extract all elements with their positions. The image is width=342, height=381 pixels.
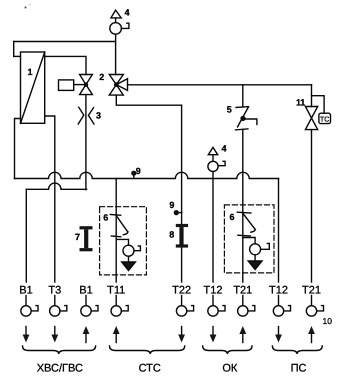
- arrow down B1: [23, 327, 30, 343]
- terminal B1 (second): [79, 284, 98, 316]
- svg-text:T21: T21: [233, 284, 252, 296]
- svg-text:СТС: СТС: [139, 363, 161, 375]
- svg-text:ОК: ОК: [222, 363, 238, 375]
- thermostat TC box: [319, 113, 331, 123]
- wire right main line y84.8: [128, 84, 312, 86]
- actuator box of valve 2: [59, 80, 85, 91]
- arrow up T21: [239, 326, 246, 343]
- filter 7: [80, 226, 93, 251]
- terminal T3: [48, 284, 66, 316]
- terminal B1: [19, 284, 38, 316]
- svg-text:ПС: ПС: [291, 363, 307, 375]
- wire exchanger right bottom port / T3 riser: [45, 116, 55, 282]
- wire T11 riser: [115, 179, 117, 283]
- sensor 9 (on T22 riser): [174, 211, 181, 215]
- pump unit 6 (OK) dashed box: [224, 205, 274, 273]
- scan speck: [25, 7, 27, 9]
- wire line1 return bus: [15, 172, 279, 178]
- svg-text:5: 5: [227, 104, 232, 114]
- svg-text:4: 4: [125, 8, 130, 18]
- svg-text:6: 6: [230, 212, 235, 222]
- wire B1 left drop: [25, 189, 27, 282]
- arrow down T22: [178, 327, 185, 343]
- svg-text:7: 7: [75, 232, 80, 242]
- wire T21 drop (PS): [311, 130, 313, 282]
- wire left outer vertical upper: [13, 42, 15, 57]
- terminal T22: [172, 284, 193, 316]
- svg-text:1: 1: [28, 67, 33, 77]
- arrow up T11: [113, 326, 120, 343]
- arrow down T3: [51, 327, 58, 343]
- arrow down T12: [210, 327, 217, 343]
- air vent 4 (on line1): [208, 147, 225, 178]
- terminal T11: [107, 284, 128, 316]
- wire riser valve 11: [311, 85, 313, 107]
- svg-text:6: 6: [103, 213, 108, 223]
- svg-text:9: 9: [136, 166, 141, 176]
- svg-text:T22: T22: [172, 284, 191, 296]
- svg-text:TC: TC: [320, 117, 329, 124]
- svg-text:T21: T21: [302, 284, 321, 296]
- wire T12 drop (OK): [212, 179, 214, 283]
- svg-text:T3: T3: [48, 284, 61, 296]
- wire exchanger left top port: [14, 55, 21, 57]
- wire riser above three-way valve: [115, 34, 117, 74]
- sensor 9 (on line1): [132, 171, 136, 178]
- pump 6 switch and pump (CTC): [110, 215, 140, 271]
- svg-text:T12: T12: [269, 284, 288, 296]
- wire T12 drop (PS) from line1 end: [278, 179, 280, 283]
- svg-text:8: 8: [169, 230, 174, 240]
- wire line2: [26, 183, 86, 189]
- brace OK: [203, 346, 252, 354]
- svg-text:11: 11: [296, 98, 305, 108]
- heat exchanger 1: [21, 52, 45, 123]
- three-way valve 2: [109, 75, 127, 96]
- terminal T12 (PS): [269, 284, 290, 316]
- wire T22 riser: [181, 105, 183, 282]
- wire top supply line: [14, 41, 116, 43]
- svg-text:B1: B1: [79, 284, 92, 296]
- wire valve2 to valve3 and down to line2: [85, 95, 87, 190]
- valve 5: [236, 85, 257, 282]
- brace PS: [272, 346, 322, 354]
- svg-text:ХВС/ГВС: ХВС/ГВС: [37, 363, 83, 375]
- valve 3: [78, 107, 94, 124]
- arrow up B1: [83, 326, 90, 343]
- wire exchanger right top port to valve 2: [45, 56, 86, 74]
- svg-text:B1: B1: [19, 284, 32, 296]
- terminal T12: [204, 284, 225, 316]
- svg-text:3: 3: [96, 111, 101, 121]
- svg-text:T11: T11: [107, 284, 125, 296]
- arrow up T21 PS: [308, 326, 315, 343]
- terminal T21: [233, 284, 254, 316]
- svg-text:T12: T12: [204, 284, 223, 296]
- svg-text:9: 9: [169, 200, 174, 210]
- control line to TC: [312, 96, 325, 114]
- pump unit 6 (CTC) dashed box: [100, 207, 147, 275]
- wire left outer vertical lower: [15, 119, 21, 179]
- svg-text:10: 10: [323, 316, 333, 326]
- svg-text:2: 2: [99, 72, 104, 82]
- svg-text:4: 4: [222, 144, 227, 154]
- terminal T21 (PS): [302, 284, 323, 316]
- valve 2 left body with actuator: [80, 75, 93, 95]
- pump 6 switch and pump (OK): [237, 212, 269, 269]
- filter 8: [176, 224, 188, 248]
- brace XBC/GBC: [23, 346, 96, 354]
- wire three-way bottom to T22 riser: [116, 95, 181, 105]
- air vent 4 (top): [110, 10, 129, 34]
- arrow down T12 PS: [275, 327, 282, 343]
- valve 11: [305, 107, 317, 130]
- brace CTC: [110, 346, 185, 354]
